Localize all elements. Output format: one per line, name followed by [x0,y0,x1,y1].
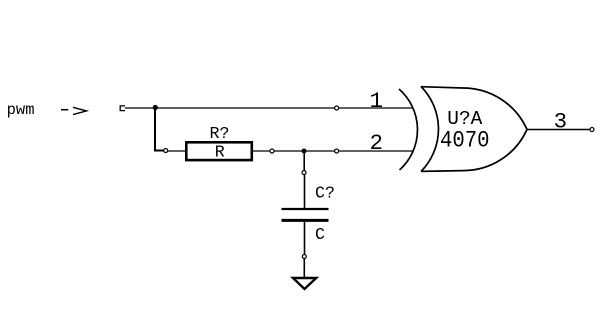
svg-text:R?: R? [210,124,230,143]
svg-text:2: 2 [369,130,383,156]
svg-text:pwm: pwm [7,101,35,119]
svg-text:1: 1 [370,88,384,114]
svg-text:4070: 4070 [440,127,490,154]
svg-text:3: 3 [554,109,568,135]
svg-text:C?: C? [315,183,335,202]
svg-text:C: C [315,225,325,244]
svg-text:R: R [215,142,225,161]
